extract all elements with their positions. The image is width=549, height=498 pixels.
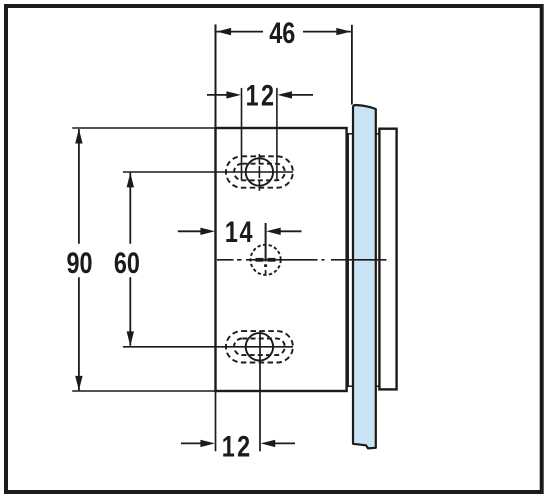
node top-slot centerline vertical xyxy=(258,154,260,191)
dim 46: extension line right xyxy=(351,25,353,105)
dim 12 bottom: dimension line + arrows xyxy=(181,442,295,444)
dim 12 bottom: extension lines xyxy=(215,391,217,451)
front wall of clamp (side view) xyxy=(348,134,353,386)
bottom slot: outer countersink obround (dashed) xyxy=(226,331,293,362)
dim 90: extension lines xyxy=(72,128,215,391)
dim 12 top: dimension line + arrows xyxy=(207,94,313,96)
top slot: screw circle (solid) xyxy=(246,158,273,185)
top slot: outer countersink obround (dashed) xyxy=(226,156,293,187)
dim 60: dimension line + arrows xyxy=(129,173,131,346)
bottom slot: screw circle (solid) xyxy=(246,333,273,360)
gasket strip right of glass xyxy=(375,134,380,386)
svg-text:90: 90 xyxy=(66,246,92,279)
middle hole (dashed circle) xyxy=(251,245,281,275)
dim 12 top: extension lines xyxy=(242,88,277,180)
svg-text:46: 46 xyxy=(269,16,295,49)
svg-text:14: 14 xyxy=(225,215,254,248)
bottom slot: inner obround (dashed) xyxy=(234,339,285,356)
node bottom-slot centerline vertical / extension to bottom 12 dim xyxy=(259,331,261,452)
dim 46: dimension line + arrows xyxy=(217,31,351,33)
dim 90: dimension line + arrows xyxy=(78,129,80,390)
node bottom-slot centerline horizontal xyxy=(123,346,293,348)
back mounting plate (side view) xyxy=(379,129,396,390)
svg-text:60: 60 xyxy=(114,246,140,279)
clamp plate (front view) xyxy=(216,128,347,391)
node middle centerline horizontal xyxy=(217,259,387,261)
top slot: inner obround (dashed) xyxy=(234,164,285,181)
dim 46: extension line left (plate edge extended up) xyxy=(215,24,217,128)
svg-text:12: 12 xyxy=(222,430,253,463)
svg-text:12: 12 xyxy=(246,79,277,112)
node top-slot centerline horizontal xyxy=(123,171,293,173)
glass pane (side view) xyxy=(353,105,376,448)
dim 14: dimension line + arrows xyxy=(178,230,302,232)
node middle-hole centerline vertical / extension of 14 dim xyxy=(265,223,267,276)
